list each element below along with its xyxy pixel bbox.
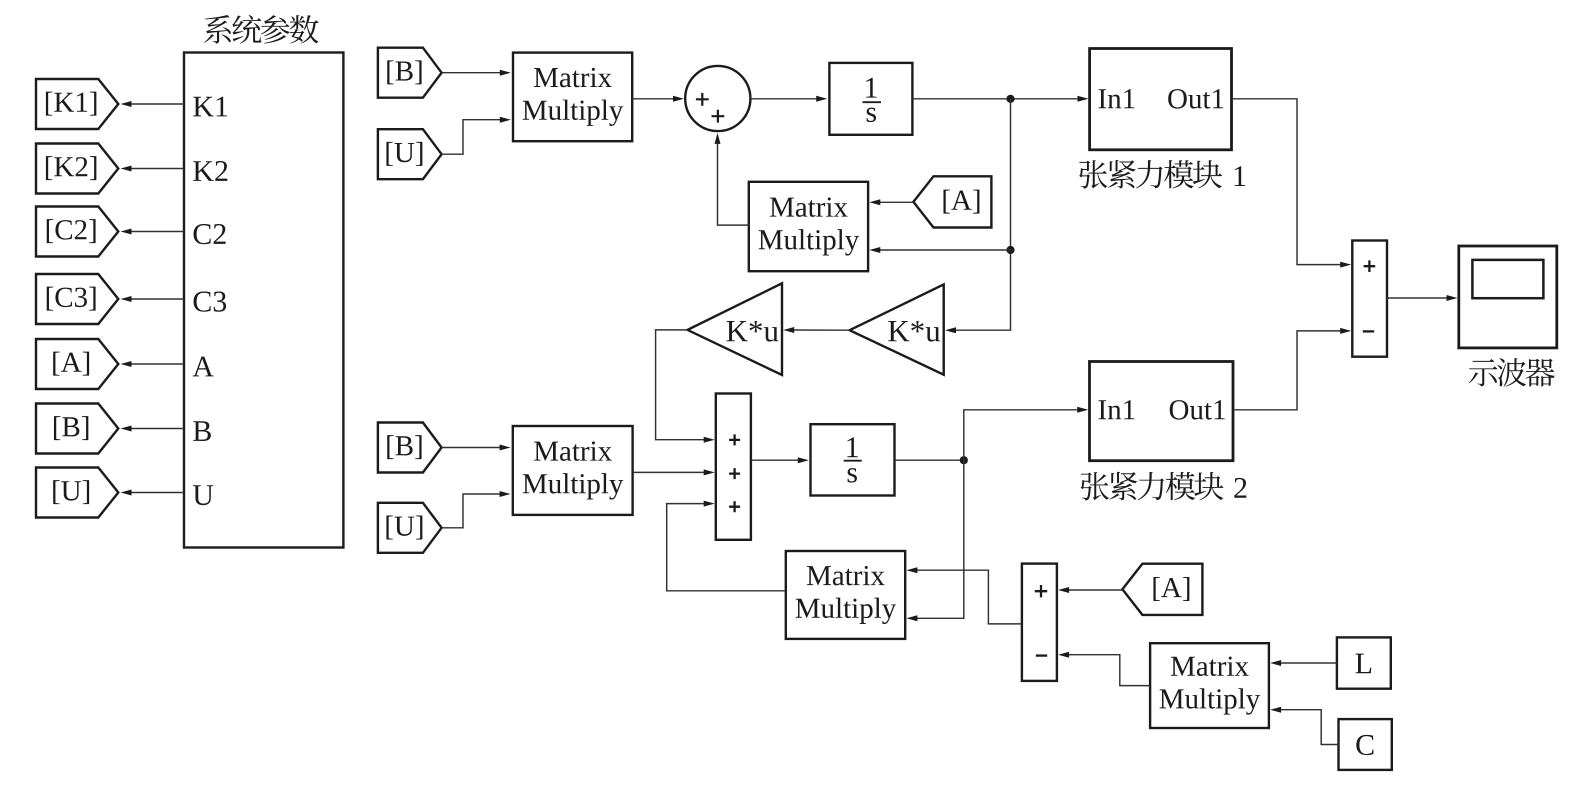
from tag [A] (top) [913,176,991,227]
label: 张紧力模块 2 [1081,472,1247,501]
wire: junction 3 up to subsystem 2 In1 [964,407,1088,460]
wire: junction 3 down to Matrix Multiply 4 in2 [906,460,963,621]
from tag [A] (bottom) [1122,564,1202,615]
block: constant L [1337,637,1391,688]
wire: source box K2 to tag [K2] [121,166,185,172]
goto tag [K2] [36,144,118,194]
label: port B inside source box [193,421,211,441]
wire: subsystem 1 Out1 to final sum + input [1232,99,1352,268]
wire: Matrix Multiply 3 to sum block (+++) input 2 [633,469,715,475]
wire: sum (+++) to integrator 1/s (bottom) [751,457,809,463]
goto tag [C2] [36,207,118,257]
block: final sum (+ -) [1352,241,1387,357]
wire: source box A to tag [A] [121,361,185,367]
block: Matrix Multiply 5 [1150,643,1269,728]
wire: Matrix Multiply 2 out to sum circle bottom input [715,133,749,225]
wire: Matrix Multiply 5 out to flipped sum - input [1058,652,1150,686]
wire: sum circle to integrator 1/s (top) [750,96,827,102]
wire: flipped sum out to Matrix Multiply 4 in1 [906,567,1022,624]
wire: L to Matrix Multiply 5 in1 [1270,660,1337,666]
block: system-parameters source box [184,53,343,548]
from tag [U] (top) [378,129,442,179]
from tag [B] (top) [378,48,442,98]
block: integrator 1/s (bottom) [811,424,895,495]
wire: source box C3 to tag [C3] [121,296,185,302]
goto tag [U] [36,468,118,518]
label: port U inside source box [193,485,213,505]
block: constant C [1339,719,1392,770]
wire: subsystem 2 Out1 to final sum - input [1233,328,1351,410]
wire: integrator 1 to subsystem 1 In1 [912,96,1088,102]
wire: final sum to scope [1387,295,1458,301]
block: Matrix Multiply 1 [513,53,632,142]
goto tag [A] [36,339,118,389]
wire: source box B to tag [B] [121,426,185,432]
block: sum (+ -) flipped [1022,564,1057,681]
wire: gain right to gain left [783,327,849,333]
wire: [U] to Matrix Multiply 1 in2 [442,117,511,155]
from tag [U] (bottom) [378,503,442,553]
block: Matrix Multiply 2 (feedback) [749,182,868,271]
goto tag [B] [36,404,118,454]
wire: C to Matrix Multiply 5 in2 [1270,707,1338,745]
label: port A inside source box [193,357,214,377]
block: subsystem 张紧力模块 2 (In1 Out1) [1090,362,1234,461]
wire: source box C2 to tag [C2] [121,229,185,235]
label: title 系统参数 [204,15,318,44]
sum junction circle (+ +) [685,66,750,131]
wire: integrator 2 out to junction [895,459,964,461]
label: port K1 inside source box [193,97,227,117]
wire: [B] to Matrix Multiply 3 in1 [442,445,511,451]
label: 张紧力模块 1 [1079,160,1245,189]
block: scope 示波器 [1459,246,1557,348]
wire: Matrix Multiply 1 to sum circle [632,96,684,102]
block: integrator 1/s (top) [829,63,912,135]
goto tag [C3] [36,274,118,324]
block: Matrix Multiply 4 [786,551,905,639]
goto tag [K1] [36,79,118,129]
wire: source box K1 to tag [K1] [121,101,185,107]
from tag [B] (bottom) [378,423,442,473]
wire: [B] to Matrix Multiply 1 in1 [442,70,511,76]
label: 示波器 [1469,358,1555,386]
wire: source box U to tag [U] [121,490,185,496]
block: Matrix Multiply 3 [513,426,633,515]
label: port C3 inside source box [194,292,227,312]
block: subsystem 张紧力模块 1 (In1 Out1) [1090,49,1232,150]
block: sum (+++) vertical [716,394,751,540]
node: junction dot 2 (feedback branch) [1006,246,1014,254]
node: junction dot 3 (bottom state line) [960,456,968,464]
label: port K2 inside source box [193,161,227,181]
wire: state feedback lane down to gain input [945,99,1011,333]
wire: [A] to Matrix Multiply 2 in1 [869,199,913,205]
wire: junction 2 to Matrix Multiply 2 in2 [869,247,1010,253]
label: port C2 inside source box [194,224,226,244]
wire: Matrix Multiply 4 out to sum block (+++) input 3 [667,501,786,591]
wire: [A] to flipped sum + input [1058,587,1122,593]
gain block K*u (left triangle) [688,283,783,375]
node: junction dot 1 (top state line) [1006,95,1014,103]
wire: gain left out to sum block (+++) input 1 [656,330,715,443]
wire: [U] to Matrix Multiply 3 in2 [442,491,511,528]
gain block K*u (right triangle) [850,284,944,374]
